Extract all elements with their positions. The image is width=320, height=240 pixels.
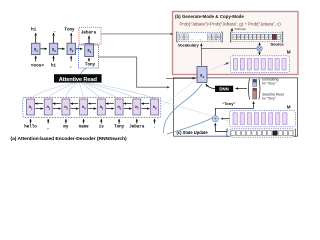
svg-text:Source: Source xyxy=(271,41,285,46)
encoder state labels xyxy=(29,104,156,109)
arrow multiply node to memory M xyxy=(259,51,261,55)
attentive read label block xyxy=(54,74,102,82)
svg-text:hi: hi xyxy=(51,63,57,68)
memory M dashed box (panel b) xyxy=(230,56,289,73)
decoder output arrows xyxy=(36,33,89,44)
svg-text:ρ: ρ xyxy=(226,129,229,133)
wire s4 to multiply node xyxy=(201,48,256,50)
source dashed row box xyxy=(232,32,281,41)
decoder state subscripts xyxy=(36,49,92,54)
label s4 (panel c) xyxy=(200,73,204,80)
DNN block xyxy=(215,86,233,92)
source highlighted cell circle xyxy=(238,36,240,38)
svg-text:Attentive Read: Attentive Read xyxy=(59,77,98,83)
decoder state transition arrows xyxy=(40,48,82,50)
gray rays encoder states to memories xyxy=(158,63,229,121)
encoder input words xyxy=(24,124,156,130)
probability row dashed box xyxy=(230,129,293,137)
memory M bars (panel c) xyxy=(233,113,287,125)
encoder dashed frame xyxy=(23,97,161,117)
wire probability row to plus node xyxy=(215,123,226,131)
encoder state boxes h1 to h8 xyxy=(27,99,159,115)
probability row cells xyxy=(231,131,293,136)
svg-text:Tony: Tony xyxy=(64,27,75,32)
label embedding for Tony xyxy=(262,78,278,86)
plus node (selective read sum) xyxy=(212,116,218,122)
svg-text:“Tony”: “Tony” xyxy=(222,101,235,106)
svg-text:hi: hi xyxy=(31,27,37,32)
svg-text:Vocabulary: Vocabulary xyxy=(178,42,200,47)
memory M dashed box (panel c) xyxy=(230,111,296,127)
probability row dark cell xyxy=(273,131,277,136)
svg-text:,: , xyxy=(70,64,73,69)
svg-text:hello: hello xyxy=(24,124,37,129)
arrow multiply node to source row xyxy=(259,43,261,46)
panel (b) Generate-Mode and Copy-Mode frame xyxy=(173,12,299,75)
svg-text:Jebara: Jebara xyxy=(81,30,97,35)
decoder input words xyxy=(31,63,96,69)
arrow ray into memory M (panel b) xyxy=(224,63,229,65)
panel (c) State Update frame xyxy=(174,78,298,136)
encoder state subscripts xyxy=(31,106,157,110)
state box s4 (panel c) xyxy=(197,67,207,83)
encoder backward arrows xyxy=(35,103,149,105)
encoder forward arrows xyxy=(35,108,149,110)
arrow DNN to s4 xyxy=(206,84,215,89)
embedding bar for Tony xyxy=(253,79,257,86)
wire into state s4 of panel c xyxy=(166,77,195,79)
svg-text:Softmax: Softmax xyxy=(235,27,247,31)
memory M bars (panel b) xyxy=(233,58,286,70)
wire plus node to selective read bar xyxy=(215,102,253,116)
svg-text:for “Tony”: for “Tony” xyxy=(262,97,275,101)
blue curve plus node to encoder xyxy=(167,118,213,135)
probability row left bracket xyxy=(227,129,228,136)
label selective read for Tony xyxy=(262,93,284,101)
wire decoder state s4 to panel c xyxy=(99,57,170,87)
vocabulary right bracket xyxy=(221,32,222,42)
encoder input arrows xyxy=(31,119,155,124)
source cells xyxy=(233,34,280,39)
svg-text:name: name xyxy=(79,125,90,129)
svg-text:(a) Attention-based Encoder-De: (a) Attention-based Encoder-Decoder (RNN… xyxy=(11,136,128,142)
vocabulary highlighted cell circle (Jebara) xyxy=(217,36,220,39)
decoder state boxes s1 s2 s3 s4 xyxy=(32,43,94,56)
vocabulary left bracket xyxy=(177,32,178,42)
svg-text:for “Tony”: for “Tony” xyxy=(262,81,275,85)
vocabulary cell circles xyxy=(181,36,216,39)
source cell circles xyxy=(234,36,280,38)
svg-text:...: ... xyxy=(191,36,194,41)
svg-text:DNN: DNN xyxy=(219,87,229,92)
softmax arrow xyxy=(231,28,233,32)
svg-text:,: , xyxy=(47,126,50,130)
source highlighted dark cell (Jebara position) xyxy=(272,34,276,39)
blue curve attentive read to s4 xyxy=(81,68,87,74)
svg-text:M: M xyxy=(287,50,291,55)
vocabulary cells xyxy=(180,34,220,40)
blue dashed box around state s4 and input Tony xyxy=(79,45,99,68)
decoder state labels xyxy=(34,47,90,53)
arrow bars to DNN xyxy=(236,88,248,90)
decoder input arrows xyxy=(36,56,89,62)
svg-text:(b) Generate-Mode & Copy-Mode: (b) Generate-Mode & Copy-Mode xyxy=(175,14,244,19)
svg-text:Tony: Tony xyxy=(114,125,125,129)
svg-text:,: , xyxy=(54,29,57,34)
attention fan curves to encoder states xyxy=(31,83,155,99)
svg-text:<eos>: <eos> xyxy=(31,63,45,68)
svg-text:Tony: Tony xyxy=(85,63,96,68)
decoder output words xyxy=(31,27,96,35)
svg-text:(c) State Update: (c) State Update xyxy=(177,130,209,135)
source left bracket xyxy=(230,32,231,42)
source right bracket xyxy=(282,32,283,42)
blue curve s4 to encoder xyxy=(164,84,203,133)
probability row right bracket xyxy=(294,129,295,136)
svg-text:is: is xyxy=(99,124,105,129)
wire predicted word to vocabulary xyxy=(101,33,173,35)
red dashed box around predicted word Jebara xyxy=(79,27,101,44)
arrow memory M to plus node xyxy=(221,118,232,120)
svg-text:M: M xyxy=(287,105,291,110)
selective read bar for Tony xyxy=(253,88,257,99)
svg-text:Prob(“Jebara”)=Prob(“Jebara”,: Prob(“Jebara”)=Prob(“Jebara”, g) + Prob(… xyxy=(180,21,282,26)
vocabulary dashed row box xyxy=(178,32,221,41)
svg-text:.: . xyxy=(153,125,156,129)
multiply node (copy score) xyxy=(257,46,262,51)
wire s4 up to softmax xyxy=(200,44,202,67)
svg-text:...: ... xyxy=(199,36,202,41)
svg-text:my: my xyxy=(63,125,69,129)
parentheses around embedding bars xyxy=(248,79,260,100)
svg-text:Jebara: Jebara xyxy=(129,124,145,129)
